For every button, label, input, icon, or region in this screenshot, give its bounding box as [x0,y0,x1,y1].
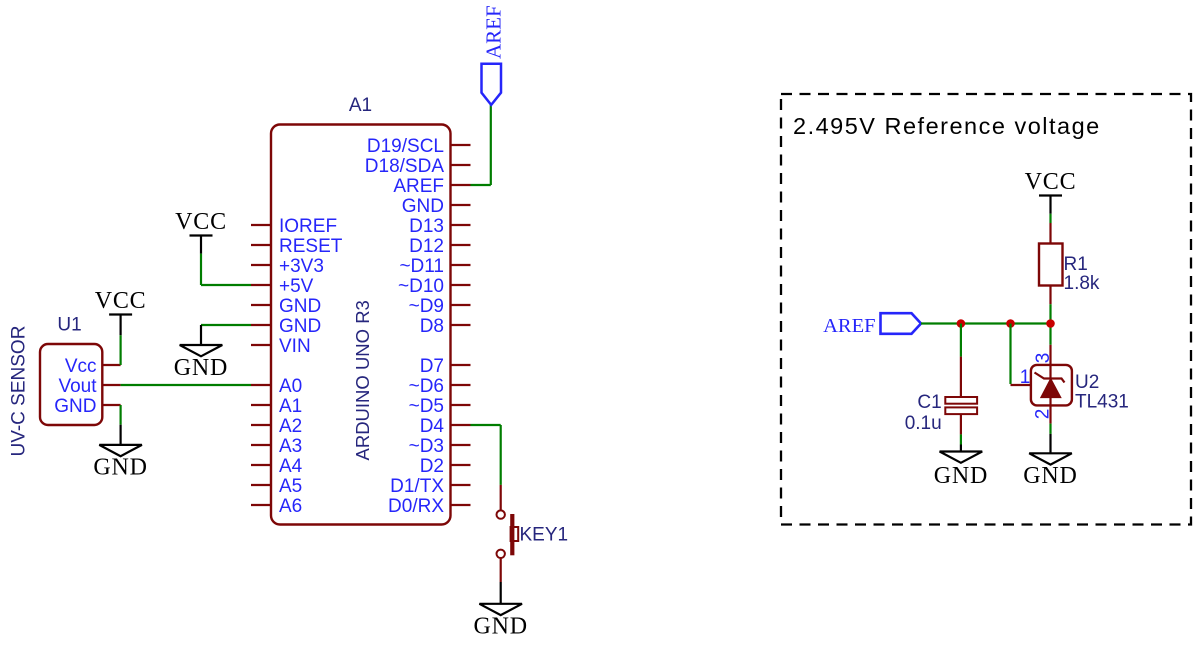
svg-text:A6: A6 [279,496,302,517]
svg-text:D19/SCL: D19/SCL [367,136,444,157]
svg-text:A2: A2 [279,416,302,437]
svg-text:D18/SDA: D18/SDA [365,156,445,177]
svg-text:A1: A1 [349,95,372,116]
svg-text:A4: A4 [279,456,303,477]
svg-text:AREF: AREF [481,5,505,59]
svg-text:GND: GND [174,355,228,381]
svg-text:D12: D12 [409,236,444,257]
svg-text:3: 3 [1033,353,1054,364]
svg-text:+5V: +5V [279,276,314,297]
svg-text:GND: GND [402,196,444,217]
svg-text:D7: D7 [420,356,444,377]
svg-text:D1/TX: D1/TX [390,476,444,497]
svg-text:GND: GND [473,614,527,640]
svg-text:~D3: ~D3 [409,436,444,457]
svg-text:RESET: RESET [279,236,343,257]
svg-text:0.1u: 0.1u [905,413,942,434]
svg-text:U2: U2 [1075,372,1099,393]
svg-text:A3: A3 [279,436,302,457]
svg-text:GND: GND [279,316,321,337]
svg-text:AREF: AREF [393,176,444,197]
svg-text:~D10: ~D10 [398,276,444,297]
svg-text:GND: GND [1023,463,1077,489]
svg-text:A1: A1 [279,396,302,417]
svg-text:C1: C1 [917,392,941,413]
svg-text:UV-C SENSOR: UV-C SENSOR [9,326,30,457]
svg-text:VCC: VCC [1025,169,1077,195]
svg-text:~D11: ~D11 [399,256,444,277]
svg-text:VCC: VCC [95,288,147,314]
svg-text:VIN: VIN [279,336,311,357]
svg-text:AREF: AREF [823,315,875,337]
svg-text:A5: A5 [279,476,302,497]
svg-text:IOREF: IOREF [279,216,337,237]
svg-text:D4: D4 [420,416,445,437]
svg-text:D2: D2 [420,456,444,477]
svg-text:~D5: ~D5 [409,396,444,417]
svg-text:Vcc: Vcc [65,356,97,377]
svg-text:~D6: ~D6 [409,376,444,397]
svg-text:D8: D8 [420,316,444,337]
svg-text:GND: GND [54,396,96,417]
svg-text:D0/RX: D0/RX [388,496,444,517]
svg-text:VCC: VCC [175,209,227,235]
svg-text:GND: GND [279,296,321,317]
svg-text:U1: U1 [57,315,81,336]
svg-text:R1: R1 [1064,254,1088,275]
svg-text:D13: D13 [409,216,444,237]
svg-text:ARDUINO UNO R3: ARDUINO UNO R3 [352,300,373,460]
svg-text:1: 1 [1020,367,1031,388]
svg-text:1.8k: 1.8k [1064,273,1100,294]
svg-text:2.495V Reference voltage: 2.495V Reference voltage [793,113,1101,139]
svg-text:TL431: TL431 [1075,392,1129,413]
svg-text:A0: A0 [279,376,302,397]
svg-text:GND: GND [934,463,988,489]
svg-text:+3V3: +3V3 [279,256,324,277]
svg-text:GND: GND [93,454,147,480]
svg-text:KEY1: KEY1 [520,525,569,546]
svg-text:~D9: ~D9 [409,296,444,317]
svg-text:Vout: Vout [58,376,97,397]
